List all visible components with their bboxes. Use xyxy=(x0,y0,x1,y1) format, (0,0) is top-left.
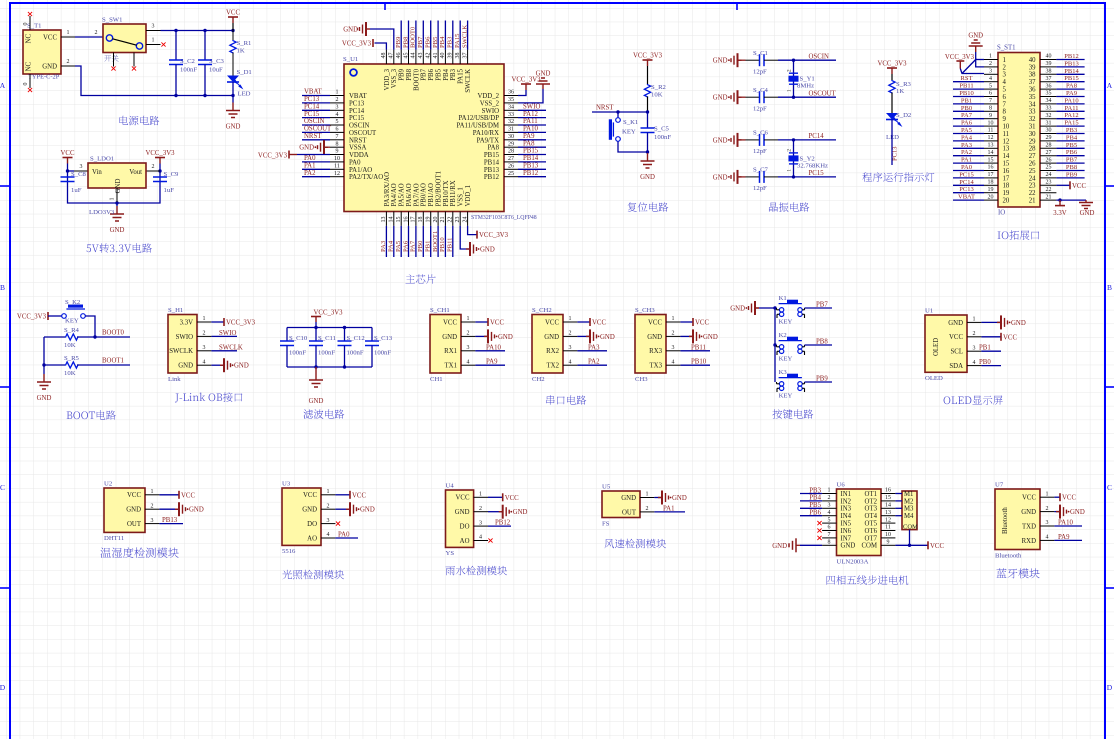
svg-text:5: 5 xyxy=(1003,87,1007,94)
svg-text:OT4: OT4 xyxy=(865,513,878,520)
svg-text:2: 2 xyxy=(152,164,155,170)
svg-text:IN2: IN2 xyxy=(841,498,852,505)
svg-text:1: 1 xyxy=(336,90,339,96)
svg-text:VCC: VCC xyxy=(545,319,559,326)
svg-text:PA2: PA2 xyxy=(304,170,316,177)
svg-text:22: 22 xyxy=(448,217,454,223)
svg-text:2: 2 xyxy=(828,495,831,501)
svg-text:15: 15 xyxy=(1003,161,1010,168)
svg-text:VCC_3V3: VCC_3V3 xyxy=(342,41,372,48)
svg-text:100nF: 100nF xyxy=(654,134,671,141)
svg-text:IN5: IN5 xyxy=(841,521,852,528)
svg-text:3.3V: 3.3V xyxy=(1053,210,1066,217)
svg-text:SWCLK: SWCLK xyxy=(219,344,243,351)
svg-text:VCC: VCC xyxy=(443,319,457,326)
svg-text:VSS_3: VSS_3 xyxy=(391,68,398,88)
svg-text:PB1/AO: PB1/AO xyxy=(428,183,435,207)
svg-text:3.3V: 3.3V xyxy=(180,319,193,326)
svg-text:NRST: NRST xyxy=(349,137,367,144)
svg-text:12pF: 12pF xyxy=(753,185,767,192)
svg-text:KEY: KEY xyxy=(779,319,793,326)
svg-text:31: 31 xyxy=(1046,120,1052,126)
svg-text:PA4: PA4 xyxy=(961,134,973,141)
svg-text:40: 40 xyxy=(1046,54,1052,60)
svg-text:VCC: VCC xyxy=(226,10,240,17)
svg-text:CH3: CH3 xyxy=(635,376,648,383)
svg-text:PC13: PC13 xyxy=(959,186,973,193)
svg-text:PA5: PA5 xyxy=(395,240,402,252)
svg-text:22: 22 xyxy=(1046,187,1052,193)
svg-text:PC14: PC14 xyxy=(304,104,320,111)
svg-text:1: 1 xyxy=(151,489,154,495)
svg-text:GND: GND xyxy=(1011,320,1026,327)
svg-text:PB10: PB10 xyxy=(691,359,707,366)
svg-text:3: 3 xyxy=(203,345,206,351)
svg-text:S_K1: S_K1 xyxy=(623,119,638,126)
svg-text:7: 7 xyxy=(336,134,339,140)
svg-text:GND: GND xyxy=(498,334,513,341)
svg-text:S_U1: S_U1 xyxy=(343,56,358,63)
svg-text:S_R3: S_R3 xyxy=(896,81,912,88)
svg-text:S_CH3: S_CH3 xyxy=(635,307,655,314)
svg-text:PA15: PA15 xyxy=(458,68,465,83)
svg-text:TX2: TX2 xyxy=(547,363,560,370)
svg-text:GND: GND xyxy=(115,179,122,194)
svg-text:100nF: 100nF xyxy=(318,350,335,357)
svg-text:1: 1 xyxy=(569,316,572,322)
svg-text:VCC: VCC xyxy=(695,320,709,327)
svg-text:40: 40 xyxy=(440,53,446,59)
svg-text:BOOT0: BOOT0 xyxy=(413,68,420,91)
svg-text:VCC_3V3: VCC_3V3 xyxy=(145,150,175,157)
svg-text:PA0: PA0 xyxy=(349,159,361,166)
svg-text:PA9: PA9 xyxy=(486,359,498,366)
svg-text:33: 33 xyxy=(1029,109,1036,116)
svg-text:S_LDO1: S_LDO1 xyxy=(90,156,114,163)
svg-text:NC: NC xyxy=(25,61,33,71)
svg-text:PC15: PC15 xyxy=(349,115,365,122)
svg-text:32.768KHz: 32.768KHz xyxy=(797,162,828,169)
svg-text:SWIO: SWIO xyxy=(482,108,499,115)
svg-text:19: 19 xyxy=(1003,190,1010,197)
svg-text:PB14: PB14 xyxy=(523,155,539,162)
svg-text:TYPE-C-2P: TYPE-C-2P xyxy=(28,74,60,81)
svg-text:47: 47 xyxy=(389,53,395,59)
svg-text:OUT: OUT xyxy=(127,521,142,528)
svg-text:4: 4 xyxy=(203,359,206,365)
svg-text:10K: 10K xyxy=(64,370,76,377)
svg-text:PA11/USB/DM: PA11/USB/DM xyxy=(456,123,499,130)
svg-text:PB11: PB11 xyxy=(691,344,706,351)
svg-text:TX3: TX3 xyxy=(650,363,663,370)
svg-text:3: 3 xyxy=(989,69,992,75)
svg-text:28: 28 xyxy=(508,149,514,155)
svg-text:4: 4 xyxy=(467,359,470,365)
svg-text:12pF: 12pF xyxy=(753,106,767,113)
svg-text:PA15: PA15 xyxy=(1064,120,1078,127)
svg-text:NRST: NRST xyxy=(596,105,614,112)
svg-text:PC15: PC15 xyxy=(304,111,320,118)
svg-text:2: 2 xyxy=(672,331,675,337)
svg-text:PA12: PA12 xyxy=(523,111,538,118)
svg-text:K3: K3 xyxy=(779,369,788,376)
svg-text:PB1: PB1 xyxy=(961,97,972,104)
svg-text:PB5: PB5 xyxy=(432,36,439,48)
svg-text:3: 3 xyxy=(80,164,83,170)
svg-text:27: 27 xyxy=(508,156,514,162)
svg-text:1: 1 xyxy=(989,54,992,60)
svg-text:GND: GND xyxy=(713,137,728,144)
svg-text:PA10: PA10 xyxy=(1064,97,1078,104)
svg-text:VBAT: VBAT xyxy=(349,93,368,100)
svg-text:U5: U5 xyxy=(602,484,611,491)
svg-text:4: 4 xyxy=(989,76,992,82)
svg-text:PB9: PB9 xyxy=(816,376,828,383)
svg-text:100nF: 100nF xyxy=(347,350,364,357)
svg-text:OT7: OT7 xyxy=(865,535,878,542)
svg-text:1K: 1K xyxy=(237,48,245,55)
svg-text:48: 48 xyxy=(381,53,387,59)
svg-text:100nF: 100nF xyxy=(180,67,197,74)
svg-text:OSCIN: OSCIN xyxy=(349,123,369,130)
svg-text:RST: RST xyxy=(961,75,973,82)
svg-text:4: 4 xyxy=(828,510,831,516)
svg-text:7: 7 xyxy=(989,98,992,104)
svg-text:VCC: VCC xyxy=(490,320,504,327)
svg-text:Link: Link xyxy=(168,376,181,383)
svg-text:GND: GND xyxy=(513,509,528,516)
svg-text:GND: GND xyxy=(442,334,457,341)
svg-text:37: 37 xyxy=(462,53,468,59)
svg-text:PA10: PA10 xyxy=(1058,520,1073,527)
svg-text:GND: GND xyxy=(841,543,856,550)
svg-text:2: 2 xyxy=(327,503,330,509)
svg-text:31: 31 xyxy=(508,127,514,133)
svg-text:PA2: PA2 xyxy=(961,149,972,156)
svg-text:YS: YS xyxy=(446,550,455,557)
svg-text:6: 6 xyxy=(828,525,831,531)
svg-text:VCC: VCC xyxy=(1003,334,1017,341)
svg-text:VDD_2: VDD_2 xyxy=(477,93,499,100)
svg-text:KEY: KEY xyxy=(65,318,79,325)
svg-text:PB15: PB15 xyxy=(1064,75,1078,82)
svg-text:44: 44 xyxy=(411,53,417,59)
svg-text:SWIO: SWIO xyxy=(219,330,236,337)
svg-text:SWIO: SWIO xyxy=(523,104,540,111)
svg-text:35: 35 xyxy=(1046,91,1052,97)
svg-text:GND: GND xyxy=(544,334,559,341)
svg-text:21: 21 xyxy=(1029,198,1036,205)
svg-text:OSCIN: OSCIN xyxy=(304,118,324,125)
svg-text:PB2/BOOT1: PB2/BOOT1 xyxy=(436,171,443,207)
svg-text:PA10: PA10 xyxy=(486,344,501,351)
svg-text:M3: M3 xyxy=(904,506,914,513)
svg-text:26: 26 xyxy=(508,164,514,170)
svg-text:SWCLK: SWCLK xyxy=(465,69,472,93)
svg-text:PA9: PA9 xyxy=(1058,534,1070,541)
svg-text:10: 10 xyxy=(988,120,994,126)
svg-text:S_T1: S_T1 xyxy=(27,23,42,30)
svg-text:FS: FS xyxy=(602,521,610,528)
svg-text:12: 12 xyxy=(988,135,994,141)
svg-text:30: 30 xyxy=(508,134,514,140)
svg-text:GND: GND xyxy=(536,71,551,78)
svg-text:GND: GND xyxy=(234,363,249,370)
svg-text:S_Y1: S_Y1 xyxy=(800,76,815,83)
svg-text:GND: GND xyxy=(730,306,745,313)
svg-text:PB0: PB0 xyxy=(417,240,424,252)
svg-text:SCL: SCL xyxy=(951,349,963,356)
svg-text:PA1: PA1 xyxy=(304,163,315,170)
svg-text:2: 2 xyxy=(1003,64,1007,71)
svg-text:29: 29 xyxy=(1029,138,1036,145)
svg-text:OLED: OLED xyxy=(925,375,943,382)
svg-text:4: 4 xyxy=(327,532,330,538)
svg-text:B: B xyxy=(0,283,5,292)
svg-text:PB10: PB10 xyxy=(959,90,973,97)
svg-text:5: 5 xyxy=(336,119,339,125)
svg-text:DHT11: DHT11 xyxy=(104,535,124,542)
svg-text:S_K2: S_K2 xyxy=(65,299,80,306)
svg-text:4: 4 xyxy=(1046,535,1049,541)
svg-text:U2: U2 xyxy=(104,481,112,488)
svg-text:43: 43 xyxy=(418,53,424,59)
svg-text:PC13: PC13 xyxy=(304,96,320,103)
svg-text:S_C8: S_C8 xyxy=(71,171,87,178)
svg-text:PB7: PB7 xyxy=(421,68,428,80)
svg-text:PA2/TX/AO: PA2/TX/AO xyxy=(349,174,383,181)
svg-text:1: 1 xyxy=(1003,57,1006,64)
svg-text:0: 0 xyxy=(23,83,29,86)
svg-text:S_R1: S_R1 xyxy=(237,40,252,47)
svg-text:Vin: Vin xyxy=(92,169,102,176)
svg-text:35: 35 xyxy=(508,97,514,103)
svg-text:21: 21 xyxy=(440,217,446,223)
svg-text:16: 16 xyxy=(403,217,409,223)
svg-text:PB8: PB8 xyxy=(816,339,828,346)
svg-text:DO: DO xyxy=(307,521,317,528)
svg-text:13: 13 xyxy=(885,510,891,516)
svg-text:PA3: PA3 xyxy=(961,142,972,149)
svg-text:VDD_1: VDD_1 xyxy=(465,185,472,207)
svg-text:38: 38 xyxy=(455,53,461,59)
svg-text:PB4: PB4 xyxy=(443,68,450,80)
svg-text:RX1: RX1 xyxy=(444,348,457,355)
svg-text:VBAT: VBAT xyxy=(958,194,975,201)
svg-text:23: 23 xyxy=(1029,183,1036,190)
svg-text:PB11: PB11 xyxy=(959,83,973,90)
svg-text:GND: GND xyxy=(713,58,728,65)
svg-text:S_ST1: S_ST1 xyxy=(997,45,1016,52)
svg-text:0: 0 xyxy=(23,23,29,26)
svg-text:17: 17 xyxy=(411,217,417,223)
svg-text:A: A xyxy=(1107,81,1113,90)
svg-text:2: 2 xyxy=(467,331,470,337)
svg-text:S_CH1: S_CH1 xyxy=(430,307,450,314)
svg-text:PA7: PA7 xyxy=(410,240,417,252)
svg-text:VCC: VCC xyxy=(352,492,366,499)
svg-text:4: 4 xyxy=(1003,79,1007,86)
svg-text:IO: IO xyxy=(998,210,1005,217)
svg-text:3: 3 xyxy=(152,24,155,30)
svg-text:41: 41 xyxy=(433,53,439,59)
svg-text:VCC: VCC xyxy=(1062,495,1076,502)
svg-text:SDA: SDA xyxy=(949,363,963,370)
svg-text:OSCOUT: OSCOUT xyxy=(304,126,332,133)
svg-text:PA1: PA1 xyxy=(961,157,972,164)
svg-text:1: 1 xyxy=(152,38,155,44)
svg-text:S_C7: S_C7 xyxy=(753,167,769,174)
svg-text:GND: GND xyxy=(1080,210,1095,217)
svg-text:PB8: PB8 xyxy=(402,36,409,48)
svg-text:S_D2: S_D2 xyxy=(896,112,911,119)
svg-text:16: 16 xyxy=(988,165,994,171)
svg-text:S_C10: S_C10 xyxy=(289,335,308,342)
svg-text:VCC_3V3: VCC_3V3 xyxy=(226,320,256,327)
svg-text:2: 2 xyxy=(989,61,992,67)
svg-text:Bluetooth: Bluetooth xyxy=(995,553,1022,560)
svg-text:PB4: PB4 xyxy=(1066,134,1078,141)
svg-text:PB7: PB7 xyxy=(1066,157,1078,164)
svg-text:BOOT0: BOOT0 xyxy=(410,26,417,48)
svg-text:PB10: PB10 xyxy=(439,237,446,252)
svg-text:3: 3 xyxy=(569,345,572,351)
svg-text:9: 9 xyxy=(887,540,890,546)
svg-text:32: 32 xyxy=(1029,116,1036,123)
svg-text:3: 3 xyxy=(327,518,330,524)
svg-text:34: 34 xyxy=(1046,98,1052,104)
svg-text:PB6: PB6 xyxy=(809,510,821,517)
svg-text:6: 6 xyxy=(1003,94,1007,101)
svg-text:25: 25 xyxy=(508,171,514,177)
svg-text:PB7: PB7 xyxy=(816,302,828,309)
svg-text:3: 3 xyxy=(336,105,339,111)
svg-text:PB5: PB5 xyxy=(1066,142,1077,149)
svg-text:14: 14 xyxy=(389,217,395,223)
svg-text:37: 37 xyxy=(1046,76,1052,82)
svg-text:PC14: PC14 xyxy=(809,133,825,140)
svg-text:7: 7 xyxy=(1003,101,1007,108)
svg-text:PB12: PB12 xyxy=(484,174,500,181)
svg-text:COM: COM xyxy=(862,543,878,550)
svg-text:VCC: VCC xyxy=(949,334,963,341)
svg-text:BOOT0: BOOT0 xyxy=(102,330,125,337)
svg-text:U1: U1 xyxy=(925,308,933,315)
svg-text:C: C xyxy=(0,483,5,492)
svg-text:PB6: PB6 xyxy=(428,68,435,80)
svg-text:VCC: VCC xyxy=(43,35,57,42)
svg-text:VSSA: VSSA xyxy=(349,145,366,152)
svg-text:BOOT1: BOOT1 xyxy=(102,358,124,365)
svg-text:1K: 1K xyxy=(896,88,904,95)
svg-text:PB0: PB0 xyxy=(961,105,972,112)
svg-text:PB8: PB8 xyxy=(406,68,413,80)
svg-text:1: 1 xyxy=(646,492,649,498)
svg-text:S_C13: S_C13 xyxy=(374,335,393,342)
svg-text:PB9: PB9 xyxy=(395,36,402,48)
svg-text:23: 23 xyxy=(455,217,461,223)
svg-text:PB4: PB4 xyxy=(439,36,446,48)
svg-text:11: 11 xyxy=(1003,131,1010,138)
svg-text:GND: GND xyxy=(672,495,687,502)
svg-text:PA3/RX/AO: PA3/RX/AO xyxy=(384,172,391,207)
svg-text:VCC_3V3: VCC_3V3 xyxy=(511,77,541,84)
svg-text:26: 26 xyxy=(1029,161,1036,168)
svg-text:5: 5 xyxy=(989,83,992,89)
svg-text:9: 9 xyxy=(1003,116,1007,123)
svg-text:GND: GND xyxy=(37,395,52,402)
svg-text:PC13: PC13 xyxy=(349,100,365,107)
svg-text:3: 3 xyxy=(151,518,154,524)
svg-text:VCC: VCC xyxy=(456,495,470,502)
svg-text:2: 2 xyxy=(67,59,70,65)
svg-text:GND: GND xyxy=(948,320,963,327)
svg-text:PA5: PA5 xyxy=(961,127,972,134)
svg-text:3: 3 xyxy=(672,345,675,351)
svg-text:37: 37 xyxy=(1029,79,1036,86)
svg-text:PA7: PA7 xyxy=(961,112,973,119)
svg-text:29: 29 xyxy=(1046,135,1052,141)
svg-text:35: 35 xyxy=(1029,94,1036,101)
svg-text:PA0: PA0 xyxy=(961,164,972,171)
svg-text:21: 21 xyxy=(1046,194,1052,200)
svg-text:GND: GND xyxy=(226,124,241,131)
svg-text:3: 3 xyxy=(828,503,831,509)
svg-text:2: 2 xyxy=(151,503,154,509)
svg-text:IN1: IN1 xyxy=(841,491,852,498)
svg-text:PA10: PA10 xyxy=(523,126,538,133)
svg-text:GND: GND xyxy=(480,247,495,254)
svg-text:PA4: PA4 xyxy=(388,240,395,252)
svg-text:OLED: OLED xyxy=(933,338,940,356)
svg-text:VCC: VCC xyxy=(1072,183,1086,190)
svg-text:PB9: PB9 xyxy=(1066,171,1077,178)
svg-text:9: 9 xyxy=(989,113,992,119)
svg-text:15: 15 xyxy=(396,217,402,223)
svg-text:PB3: PB3 xyxy=(450,68,457,80)
svg-text:PB10/TX: PB10/TX xyxy=(443,180,450,206)
svg-text:20: 20 xyxy=(988,194,994,200)
svg-text:26: 26 xyxy=(1046,157,1052,163)
svg-text:PA11: PA11 xyxy=(1065,105,1079,112)
svg-text:PA11: PA11 xyxy=(523,118,538,125)
svg-text:13: 13 xyxy=(381,217,387,223)
svg-text:VCC_3V3: VCC_3V3 xyxy=(258,153,288,160)
svg-text:PA3: PA3 xyxy=(380,240,387,252)
svg-text:GND: GND xyxy=(189,507,204,514)
svg-text:VSS_1: VSS_1 xyxy=(458,187,465,206)
svg-text:VCC: VCC xyxy=(648,319,662,326)
svg-text:GND: GND xyxy=(713,174,728,181)
svg-text:4: 4 xyxy=(569,359,572,365)
svg-text:S_C3: S_C3 xyxy=(209,58,225,65)
svg-text:38: 38 xyxy=(1046,69,1052,75)
svg-text:PB0: PB0 xyxy=(979,359,991,366)
svg-text:PB13: PB13 xyxy=(162,517,178,524)
svg-text:33: 33 xyxy=(1046,106,1052,112)
svg-text:1uF: 1uF xyxy=(71,187,82,194)
svg-text:2: 2 xyxy=(787,69,793,72)
svg-text:PB5: PB5 xyxy=(809,502,821,509)
svg-text:PB15: PB15 xyxy=(523,148,539,155)
svg-text:5: 5 xyxy=(828,517,831,523)
svg-text:S_SW1: S_SW1 xyxy=(102,17,122,24)
svg-text:42: 42 xyxy=(426,53,432,59)
svg-text:K2: K2 xyxy=(779,332,787,339)
svg-text:10K: 10K xyxy=(64,342,76,349)
svg-text:VCC: VCC xyxy=(505,495,519,502)
svg-text:PB12: PB12 xyxy=(1064,53,1078,60)
